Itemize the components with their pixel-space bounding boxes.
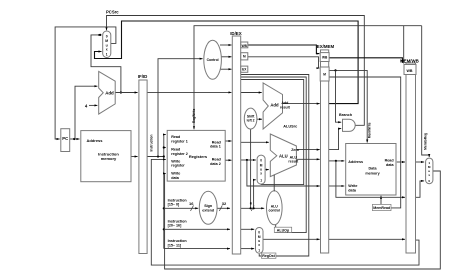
- wire: instruction [15-11] to ID/EX: [164, 248, 230, 250]
- svg-text:Registers: Registers: [189, 154, 208, 159]
- wire: WB control EX/MEM to MEM/WB: [329, 58, 402, 63]
- wire: Control to ID/EX EX: [220, 68, 232, 70]
- svg-text:Address: Address: [348, 160, 363, 164]
- svg-text:x: x: [428, 173, 430, 177]
- svg-text:WB: WB: [242, 44, 248, 48]
- Control unit: [204, 40, 222, 79]
- svg-text:left 2: left 2: [247, 119, 255, 123]
- wire: register number from EX/MEM to MEM/WB: [329, 238, 405, 240]
- svg-text:Zero: Zero: [291, 148, 299, 152]
- AND gate (branch): [339, 113, 355, 131]
- wire: ALU result bypass to MEM/WB: [336, 161, 405, 197]
- wire: write-back data from MemtoReg mux to Registers write data: [165, 171, 441, 269]
- svg-text:1: 1: [260, 179, 262, 183]
- svg-text:PC: PC: [62, 136, 68, 141]
- wire: instruction [15-0] to sign extend: [164, 205, 198, 211]
- constant 4 into Add: [85, 103, 98, 108]
- wire: instruction memory output to IF/ID: [131, 156, 137, 158]
- svg-text:register 1: register 1: [171, 139, 188, 143]
- wire: shift left 2 to branch Add: [257, 118, 262, 120]
- svg-text:register 2: register 2: [171, 152, 188, 156]
- wire: instruction [20-16] to ID/EX: [164, 228, 230, 230]
- svg-text:result: result: [288, 159, 299, 163]
- RegDst mux: [256, 228, 264, 254]
- MemtoReg mux: [426, 158, 433, 184]
- wire: read data 2 from ID/EX to ALUSrc mux input 0: [241, 159, 256, 161]
- svg-text:data: data: [171, 176, 180, 180]
- wire: RegDst mux output to EX/MEM: [263, 238, 320, 240]
- svg-text:Address: Address: [87, 138, 104, 143]
- adder Add (branch target): [263, 83, 290, 129]
- wire: instr [20-16] from ID/EX to RegDst mux input 0: [241, 228, 255, 230]
- svg-text:WB: WB: [407, 69, 413, 73]
- Registers block: [167, 130, 225, 181]
- PC register: [61, 129, 70, 152]
- svg-text:1: 1: [106, 53, 108, 57]
- wire: write register number from MEM/WB to Registers write register: [151, 159, 419, 265]
- svg-text:0: 0: [428, 179, 430, 183]
- svg-text:4: 4: [85, 103, 88, 108]
- pipeline register ID/EX with WB M EX boxes: [230, 31, 248, 254]
- svg-text:M: M: [323, 73, 326, 77]
- svg-text:MemWrite: MemWrite: [367, 122, 371, 138]
- wire: ALU Zero to EX/MEM: [296, 149, 320, 151]
- svg-text:ALU: ALU: [279, 153, 288, 158]
- wire: immediate from ID/EX to ALU control with taps: [241, 129, 265, 211]
- svg-text:32: 32: [222, 201, 227, 206]
- svg-text:Read: Read: [385, 158, 395, 162]
- svg-text:data 2: data 2: [210, 162, 221, 166]
- svg-text:memory: memory: [365, 172, 380, 176]
- label box MemRead: [372, 204, 391, 210]
- wire: ALU result to EX/MEM: [296, 158, 320, 160]
- wire: Control to ID/EX M: [221, 56, 231, 58]
- wire: ALU result from EX/MEM to data memory address: [329, 160, 345, 162]
- ALUSrc mux: [257, 155, 265, 184]
- svg-text:Branch: Branch: [339, 113, 353, 117]
- svg-text:ALUSrc: ALUSrc: [283, 125, 297, 129]
- wire: Zero from EX/MEM to AND gate: [329, 129, 342, 150]
- wire: PC to Add input: [75, 86, 97, 139]
- wire: RegWrite from MEM/WB WB to Registers, with MemWrite and MemtoReg drops: [194, 26, 429, 157]
- wire: read data from MEM/WB to MemtoReg mux input 1: [416, 161, 425, 163]
- svg-text:x: x: [258, 243, 260, 247]
- wire: PC mux output to PC: [55, 27, 116, 139]
- wire: MemRead from EX/MEM M box under data memory: [329, 69, 401, 208]
- svg-text:[15– 0]: [15– 0]: [168, 203, 180, 207]
- wire: PC+4 to PC mux input 0: [91, 34, 122, 94]
- wire: branch target from EX/MEM to PC mux input 1: [95, 21, 359, 104]
- wire: write data from EX/MEM to data memory: [329, 185, 345, 187]
- wire: read data 1 from Registers to ID/EX: [225, 140, 231, 142]
- sign extend: [199, 191, 217, 224]
- wire: instruction bus from IF/ID with taps: [147, 135, 166, 249]
- svg-text:MemRead: MemRead: [373, 206, 390, 210]
- wire: ALUOp from EX box to ALU control: [241, 77, 306, 233]
- svg-text:[20– 16]: [20– 16]: [168, 224, 183, 228]
- svg-text:x: x: [106, 48, 108, 52]
- wire: Control to ID/EX WB: [220, 44, 232, 46]
- wire: M control ID/EX to EX/MEM: [248, 57, 319, 68]
- wire: RegDst select from EX box: [241, 75, 309, 257]
- label box ALUOp: [274, 227, 291, 232]
- svg-text:extend: extend: [202, 208, 215, 212]
- shift left 2: [244, 108, 257, 129]
- wire: ALUSrc select from EX box to ALUSrc mux: [241, 80, 304, 185]
- svg-text:M: M: [243, 55, 246, 59]
- svg-text:IF/ID: IF/ID: [138, 74, 148, 79]
- svg-text:Write: Write: [348, 184, 357, 188]
- wire: PCSrc select from AND gate to PC mux: [107, 16, 365, 126]
- wire: PC+4 from IF/ID to ID/EX: [147, 91, 231, 93]
- wire: read data 1 from ID/EX to ALU: [241, 141, 269, 143]
- svg-text:0: 0: [106, 34, 108, 38]
- wire: PC+4 from ID/EX to branch Add: [241, 92, 262, 94]
- ALU: [270, 134, 296, 177]
- svg-text:1: 1: [258, 249, 260, 253]
- wire: read data 2 down to EX/MEM write data: [247, 160, 320, 186]
- pipeline register EX/MEM with WB M boxes: [317, 44, 335, 253]
- svg-text:Read: Read: [212, 158, 222, 162]
- wire: read data 2 from Registers to ID/EX: [225, 159, 231, 161]
- svg-text:MemtoReg: MemtoReg: [424, 133, 428, 150]
- wire: ALU control output to ALU: [273, 175, 275, 192]
- label box RegDst: [261, 253, 276, 258]
- svg-text:Instruction: Instruction: [149, 134, 153, 151]
- instruction memory: [81, 131, 131, 182]
- svg-text:data: data: [386, 163, 395, 167]
- wire: sign extend output to ID/EX: [217, 205, 230, 211]
- PC source mux: [103, 31, 111, 58]
- adder Add (PC+4): [99, 71, 116, 114]
- wire: Branch control to AND gate: [336, 70, 342, 122]
- svg-text:Read: Read: [171, 147, 181, 151]
- svg-text:WB: WB: [322, 56, 328, 60]
- svg-text:x: x: [260, 171, 262, 175]
- data memory: [346, 144, 396, 196]
- svg-text:6: 6: [250, 201, 253, 206]
- pipeline register MEM/WB with WB box: [400, 58, 419, 253]
- svg-text:EX/MEM: EX/MEM: [317, 44, 335, 49]
- svg-text:Data: Data: [369, 167, 378, 171]
- svg-text:result: result: [280, 105, 291, 109]
- svg-text:register: register: [171, 164, 185, 168]
- svg-text:Add: Add: [270, 103, 279, 108]
- svg-text:RegDst: RegDst: [262, 254, 275, 258]
- svg-text:Read: Read: [171, 135, 181, 139]
- svg-text:PCSrc: PCSrc: [106, 10, 119, 15]
- wire: read data from data memory to MEM/WB: [397, 161, 405, 163]
- svg-text:16: 16: [189, 201, 194, 206]
- svg-text:Read: Read: [212, 140, 222, 144]
- wire: PC to instruction memory address: [70, 138, 80, 140]
- wire: opcode to Control: [158, 59, 203, 157]
- svg-text:Control: Control: [207, 58, 219, 62]
- svg-text:0: 0: [258, 230, 260, 234]
- svg-text:0: 0: [260, 159, 262, 163]
- pipeline register IF/ID: [138, 74, 148, 254]
- wire: WB control ID/EX to EX/MEM: [248, 45, 319, 54]
- svg-text:RegWrite: RegWrite: [192, 109, 196, 124]
- svg-text:[15– 11]: [15– 11]: [168, 243, 182, 247]
- wire: instr [15-11] from ID/EX to RegDst mux input 1: [241, 248, 255, 250]
- svg-text:Write: Write: [171, 172, 180, 176]
- svg-text:ALUOp: ALUOp: [277, 229, 290, 233]
- wire: ALU result from MEM/WB to MemtoReg mux input 0: [416, 181, 425, 197]
- svg-text:memory: memory: [101, 156, 117, 161]
- ALU control: [267, 191, 283, 225]
- svg-text:data: data: [348, 188, 357, 192]
- svg-text:data 1: data 1: [210, 145, 221, 149]
- wire: Add output (PC+4) to IF/ID: [115, 92, 137, 94]
- svg-text:ID/EX: ID/EX: [230, 31, 242, 36]
- svg-text:control: control: [268, 208, 280, 212]
- wire: ALUSrc mux output to ALU: [265, 169, 269, 171]
- svg-text:Add: Add: [105, 91, 114, 96]
- svg-text:Write: Write: [171, 159, 180, 163]
- wire: branch Add result to EX/MEM: [283, 103, 320, 105]
